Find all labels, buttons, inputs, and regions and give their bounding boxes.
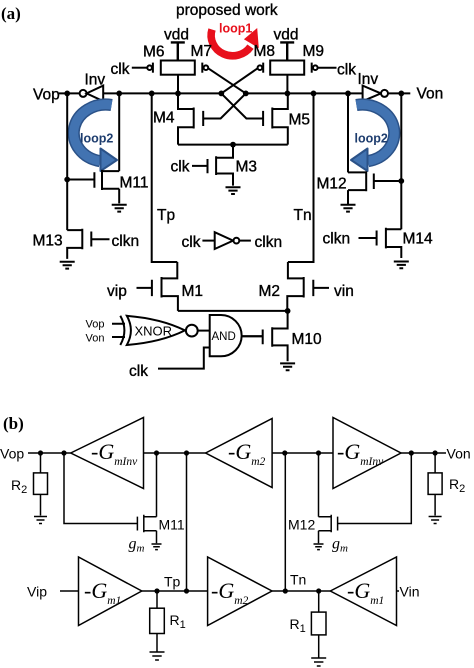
svg-text:M12: M12 <box>288 517 315 533</box>
svg-text:clk: clk <box>337 62 356 79</box>
svg-text:vdd: vdd <box>274 27 299 44</box>
ground M11 <box>112 205 127 212</box>
transistor M12 (b MOS cap) <box>319 515 338 533</box>
wire M12 drain rail <box>347 93 349 172</box>
svg-text:Tn: Tn <box>290 572 306 588</box>
wire M4/M5 common source <box>178 144 288 146</box>
wire clk to AND <box>158 348 210 369</box>
transistor M13 (clocked NMOS left) <box>67 229 82 259</box>
wire Tn rail <box>288 93 314 262</box>
resistor R2 right <box>434 453 436 473</box>
svg-text:Von: Von <box>417 86 444 103</box>
svg-text:clk: clk <box>111 61 130 78</box>
op-amp -GmInv right <box>333 418 401 489</box>
wire AND out to M10 gate <box>242 335 263 337</box>
wire Tp vertical <box>186 453 188 591</box>
svg-text:Vin: Vin <box>400 584 420 600</box>
junction dots top rail <box>38 450 438 455</box>
transistor M5 (cross-coupled NMOS) <box>272 93 288 144</box>
svg-text:clkn: clkn <box>112 233 140 250</box>
ground R1 left <box>150 652 165 660</box>
transistor M11 (feedback NMOS left) <box>67 170 119 204</box>
svg-text:clk: clk <box>171 159 190 176</box>
svg-text:proposed work: proposed work <box>176 2 278 19</box>
junction dots bottom row <box>154 588 321 593</box>
ground R2 left <box>34 517 47 524</box>
wire feedback Vop to M11 gate <box>64 453 137 524</box>
ground M10 <box>280 363 295 370</box>
svg-text:M4: M4 <box>153 110 175 127</box>
svg-text:M13: M13 <box>33 233 63 250</box>
svg-text:M14: M14 <box>403 231 434 248</box>
wire top rail mid-right <box>272 452 333 454</box>
rail junction dots <box>64 91 404 97</box>
vdd symbol left <box>171 42 185 60</box>
svg-text:loop2: loop2 <box>355 132 388 146</box>
ground M3 <box>226 187 241 194</box>
wire M6 drain to rail <box>177 75 179 94</box>
wire M11 drain rail <box>118 93 120 171</box>
transistor M11 (b MOS cap) <box>137 515 156 533</box>
op-amp -Gm2 bottom <box>208 557 272 626</box>
resistor R2 left <box>40 453 42 473</box>
svg-text:M7: M7 <box>191 43 213 60</box>
transistor M3 (clocked tail NMOS) <box>216 145 233 186</box>
svg-text:Von: Von <box>86 333 105 345</box>
AND gate <box>210 315 242 356</box>
svg-text:M1: M1 <box>182 283 204 300</box>
wire Tp rail <box>152 93 178 262</box>
transistor M9 (PMOS, clocked precharge) <box>311 63 313 73</box>
vdd symbol right <box>280 42 294 60</box>
svg-text:gm: gm <box>129 536 145 555</box>
wire right outer rail <box>400 93 402 229</box>
op-amp -GmInv left <box>71 418 144 489</box>
transistor M14 (clocked NMOS right) <box>386 228 401 258</box>
loop2 left arrow <box>74 105 117 171</box>
resistor R1 right <box>318 591 320 612</box>
svg-text:Von: Von <box>447 446 471 462</box>
ground R2 right <box>429 517 442 524</box>
op-amp -Gm1 left <box>79 557 142 626</box>
wire M8 gate to left rail dot (cross couple) <box>221 68 257 93</box>
wire common source M1/M2 <box>178 310 288 312</box>
wire top rail right <box>401 452 446 454</box>
ground M12 <box>341 205 356 212</box>
svg-text:M6: M6 <box>143 44 165 61</box>
transistor M10 (tail NMOS, AND controlled) <box>272 311 287 361</box>
svg-text:Vop: Vop <box>0 446 24 462</box>
transistor M8 (cross-coupled PMOS) <box>270 61 304 75</box>
wire XNOR out to AND in <box>198 330 210 332</box>
svg-text:M5: M5 <box>289 112 311 129</box>
svg-text:Vip: Vip <box>27 584 47 600</box>
op-amp -Gm1 right <box>330 557 396 626</box>
resistor R1 left <box>156 591 158 608</box>
svg-text:M11: M11 <box>120 175 149 192</box>
svg-text:clkn: clkn <box>255 234 283 251</box>
svg-text:clk: clk <box>182 234 201 251</box>
wire top rail left <box>28 452 71 454</box>
op-amp -Gm2 top <box>206 419 273 488</box>
wire top rail mid-left <box>144 452 206 454</box>
svg-text:(a): (a) <box>1 4 21 23</box>
svg-text:clkn: clkn <box>323 231 351 248</box>
svg-text:clk: clk <box>129 363 148 380</box>
svg-text:R1: R1 <box>290 616 306 635</box>
transistor M12 (feedback NMOS right) <box>348 171 401 204</box>
transistor M1 (input NMOS vip) <box>162 262 178 311</box>
svg-text:Inv: Inv <box>358 71 379 88</box>
transistor M7 (cross-coupled PMOS, shares box with M6) <box>201 63 203 73</box>
ground M11 (b) <box>152 544 162 550</box>
loop2 right arrow <box>351 105 394 171</box>
svg-text:vin: vin <box>334 283 354 300</box>
svg-text:Vop: Vop <box>86 319 105 331</box>
svg-text:loop2: loop2 <box>80 132 113 146</box>
wire Vip stub <box>60 590 79 592</box>
svg-text:M9: M9 <box>303 43 325 60</box>
svg-text:loop1: loop1 <box>219 22 252 36</box>
wire feedback Von to M12 gate <box>338 453 412 524</box>
svg-text:Vop: Vop <box>33 87 60 104</box>
svg-text:XNOR: XNOR <box>135 324 173 339</box>
svg-text:(b): (b) <box>3 414 24 433</box>
svg-text:Tp: Tp <box>164 574 181 590</box>
wire M8 drain to rail <box>286 75 288 94</box>
svg-text:M8: M8 <box>254 43 276 60</box>
svg-text:AND: AND <box>212 331 236 343</box>
svg-text:gm: gm <box>332 536 348 555</box>
svg-text:M10: M10 <box>292 331 323 348</box>
wire M7 gate to right rail dot (cross couple) <box>208 68 246 93</box>
svg-text:R2: R2 <box>11 477 27 496</box>
wire Tp node <box>142 590 208 592</box>
svg-text:vip: vip <box>107 283 127 300</box>
svg-text:vdd: vdd <box>164 27 189 44</box>
wire Vin stub <box>397 590 400 592</box>
svg-text:R1: R1 <box>170 612 186 631</box>
svg-text:M11: M11 <box>159 517 185 533</box>
ground M12 (b) <box>314 544 324 550</box>
ground M14 <box>394 262 409 269</box>
svg-text:M12: M12 <box>317 176 347 193</box>
svg-text:Tn: Tn <box>294 207 312 224</box>
wire Tn node <box>272 590 330 592</box>
ground R1 right <box>311 658 326 666</box>
transistor M4 (cross-coupled NMOS) <box>178 93 194 144</box>
loop1 red arrow <box>211 28 259 56</box>
svg-text:R2: R2 <box>449 476 465 495</box>
wire left outer rail <box>66 93 68 230</box>
ground M13 <box>60 262 75 269</box>
svg-text:Tp: Tp <box>157 207 175 224</box>
transistor M2 (input NMOS vin) <box>287 262 303 311</box>
svg-text:M2: M2 <box>259 283 281 300</box>
transistor M6 (PMOS, clocked precharge) <box>161 61 195 75</box>
wire Tn vertical <box>284 453 286 591</box>
svg-text:M3: M3 <box>236 159 258 176</box>
